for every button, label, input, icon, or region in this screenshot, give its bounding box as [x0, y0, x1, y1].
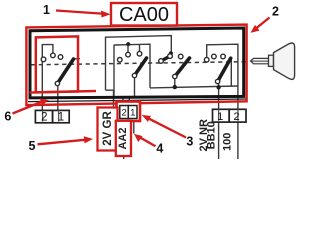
- svg-text:1: 1: [58, 112, 64, 124]
- unit4 contact circle C: [221, 54, 226, 59]
- svg-text:1: 1: [130, 107, 135, 118]
- unit2 contact circle A: [126, 52, 131, 57]
- unit2 contact circle C: [118, 58, 123, 63]
- terminal box right pin 1: [213, 109, 230, 122]
- callout 4 arrow: [141, 138, 156, 147]
- unit4 blade: [218, 58, 231, 81]
- unit1 contact circle B: [51, 53, 56, 58]
- wire: middle terminal 1 lead stub: [133, 119, 135, 134]
- terminal box unit1 pin 2: [35, 110, 52, 122]
- unit2 stub B: [139, 45, 141, 51]
- wire: unit4 top loop with right leg to right terminal 2: [207, 44, 238, 109]
- wire: middle terminal feed stubs: [122, 99, 124, 107]
- unit3 contact circle C: [178, 54, 183, 59]
- wire: right terminal 2 lead: [237, 122, 239, 159]
- svg-text:1: 1: [43, 3, 50, 17]
- svg-text:2: 2: [121, 107, 126, 118]
- unit1 red highlight box: [36, 36, 78, 92]
- wire label 2V GR red box: [98, 108, 118, 151]
- callout 1 arrow: [56, 11, 102, 14]
- wire: unit4 pivot down through bus to right terminal 1: [218, 82, 220, 123]
- wire label AA2 red box: [116, 121, 131, 156]
- callout 6 arrow: [13, 102, 42, 114]
- wire: unit1 left lead down to terminal 2: [41, 90, 43, 122]
- unit4 pivot ring: [215, 79, 219, 83]
- switch body outer thin bottom line: [28, 99, 246, 102]
- unit2 contact circle B: [137, 51, 142, 56]
- terminal box right pin 2: [229, 109, 246, 122]
- unit1 contact circle C: [58, 55, 63, 60]
- wire: unit2 inner left leg: [113, 45, 115, 96]
- svg-text:5: 5: [29, 139, 36, 153]
- dashed mechanical linkage line: [31, 62, 246, 65]
- svg-text:1: 1: [217, 111, 223, 123]
- wire: middle terminal 2 lead through AA2: [123, 106, 125, 159]
- unit2 pivot ring: [132, 73, 136, 77]
- svg-text:AA2: AA2: [117, 127, 129, 149]
- wire: internal bottom bus: [150, 86, 238, 88]
- wire: right terminal 1 lead down: [218, 122, 220, 159]
- unit3 bus junction dot: [173, 85, 177, 89]
- wire: unit4 blade-top contact down to bus: [230, 59, 232, 86]
- svg-text:2: 2: [272, 4, 279, 18]
- unit2 blade: [135, 58, 147, 76]
- unit2 stub A: [127, 44, 129, 52]
- wire: unit2 inner top horizontal: [114, 44, 150, 88]
- svg-text:CA00: CA00: [119, 4, 169, 26]
- right terminal wires: [218, 109, 220, 121]
- unit1 contact circle A: [41, 57, 46, 62]
- svg-text:BB10: BB10: [206, 121, 218, 149]
- unit1 pivot ring: [55, 81, 59, 85]
- handle knob bell: [274, 43, 295, 79]
- handle collar: [269, 55, 274, 66]
- svg-text:6: 6: [4, 110, 11, 124]
- wire: unit1 blade-top stub: [74, 58, 81, 60]
- switch body black box: [30, 28, 244, 98]
- unit1 L-wire: [42, 45, 53, 90]
- wire: unit3 pivot down to bus: [174, 77, 176, 88]
- red highlighted internal bus segment (callout 6 target): [30, 91, 97, 93]
- middle terminal red highlight: [117, 102, 141, 122]
- unit3 pivot ring: [173, 74, 177, 78]
- unit3 closed contact ring A: [159, 59, 164, 64]
- unit2 stub junction dot: [126, 42, 130, 46]
- CA00 red box: [111, 3, 177, 26]
- svg-text:2: 2: [234, 111, 240, 123]
- wire: unit2 pivot down: [134, 76, 136, 97]
- unit3 blade: [175, 58, 190, 77]
- callout 5 arrow: [38, 140, 86, 145]
- svg-text:3: 3: [186, 134, 193, 148]
- callout 3 arrow: [149, 119, 186, 138]
- terminal box middle pin 2: [120, 106, 129, 119]
- unit3 closed contact bar: [161, 56, 170, 61]
- red outline around switch body: [26, 25, 246, 106]
- wire: unit2 outer top loop and drop to 2V GR: [106, 36, 172, 91]
- svg-text:4: 4: [156, 142, 163, 156]
- terminal box unit1 pin 1: [53, 110, 70, 122]
- terminal wires through unit1 boxes: [42, 110, 44, 121]
- svg-text:100: 100: [222, 133, 234, 151]
- unit3 junction dot: [169, 51, 173, 55]
- unit4 contact circle A: [204, 57, 209, 62]
- unit3 closed contact ring B: [168, 54, 173, 59]
- handle shaft: [251, 58, 269, 63]
- unit4 contact circle B: [212, 54, 217, 59]
- unit1 blade: [57, 59, 73, 84]
- svg-text:2V GR: 2V GR: [102, 111, 114, 146]
- unit4 bus junction dot: [216, 85, 220, 89]
- wire: unit1 pivot lead down to terminal 1: [57, 84, 59, 122]
- svg-text:2: 2: [41, 112, 47, 124]
- callout 2 arrow: [257, 18, 270, 29]
- terminal box middle pin 1: [128, 106, 137, 119]
